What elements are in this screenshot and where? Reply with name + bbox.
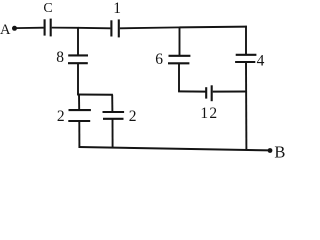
- node A: [12, 26, 17, 31]
- wire parallel section top: [77, 94, 113, 96]
- wire capacitor 8 down to node J3: [77, 63, 79, 94]
- capacitor 1: [111, 19, 118, 37]
- wire right rail lower: [245, 62, 247, 150]
- svg-text:C: C: [43, 1, 52, 16]
- svg-text:4: 4: [257, 52, 265, 69]
- wire C to node J1: [52, 27, 79, 29]
- wire right 2 upper lead: [111, 95, 113, 112]
- wire A to C: [15, 27, 44, 29]
- wire right 2 lower lead: [112, 119, 114, 149]
- wire bottom: [79, 147, 271, 150]
- node B: [268, 148, 273, 153]
- capacitor 2 left: [68, 110, 91, 121]
- capacitor 2 right: [103, 112, 125, 119]
- svg-text:B: B: [274, 142, 285, 160]
- wire left 2 upper lead: [78, 95, 80, 111]
- svg-text:1: 1: [113, 0, 121, 17]
- wire node J2 to top right corner: [180, 26, 247, 29]
- wire capacitor 6 down: [178, 63, 180, 91]
- svg-text:8: 8: [56, 49, 64, 66]
- capacitor 8: [68, 55, 88, 63]
- svg-text:2: 2: [57, 108, 65, 125]
- wire capacitor 1 to node J2: [120, 26, 180, 29]
- wire left 2 lower lead: [78, 121, 80, 148]
- wire capacitor 12 to right rail: [213, 91, 247, 93]
- wire elbow to capacitor 12: [178, 90, 206, 92]
- svg-text:A: A: [0, 22, 11, 38]
- svg-text:12: 12: [200, 105, 218, 122]
- svg-text:2: 2: [129, 108, 137, 125]
- svg-text:6: 6: [155, 51, 163, 68]
- wire node J1 down to capacitor 8: [77, 28, 79, 56]
- capacitor 4: [235, 55, 256, 62]
- capacitor 6: [168, 56, 190, 64]
- wire node J2 down to capacitor 6: [179, 27, 181, 55]
- wire right rail upper: [245, 26, 247, 55]
- wire node J1 to capacitor 1: [78, 27, 110, 30]
- capacitor C: [45, 19, 51, 37]
- capacitor 12: [206, 85, 212, 101]
